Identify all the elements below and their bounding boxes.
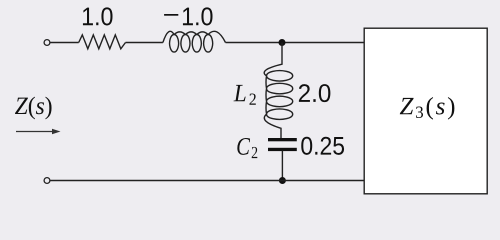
label 1.0 [83,7,113,25]
label 0.25 [301,137,344,155]
wire: capacitor to bottom junction [281,151,283,181]
terminal bottom-left [44,178,50,184]
arrow for Z(s) [16,129,61,135]
label C2 [237,138,257,158]
capacitor C2 plates [268,138,297,151]
junction node bottom [279,177,286,184]
wire bottom [51,180,365,182]
label -1.0 minus stroke [164,14,178,16]
label -1.0 digits [183,7,213,25]
terminal top-left [44,40,50,46]
wire: inductor to box [226,42,365,44]
inductor L2 (vertical) [264,43,293,140]
label Z(s) [15,97,52,120]
label L2 [234,85,256,105]
label 2.0 [299,84,331,102]
resistor R1 value 1.0 [79,35,126,49]
label Z3(s) [400,97,455,120]
wire: top terminal to resistor [51,42,79,44]
wire: resistor to inductor [126,42,163,44]
junction node top [279,39,286,46]
box Z3 [364,28,487,194]
inductor L1 value -1.0 [163,31,226,52]
